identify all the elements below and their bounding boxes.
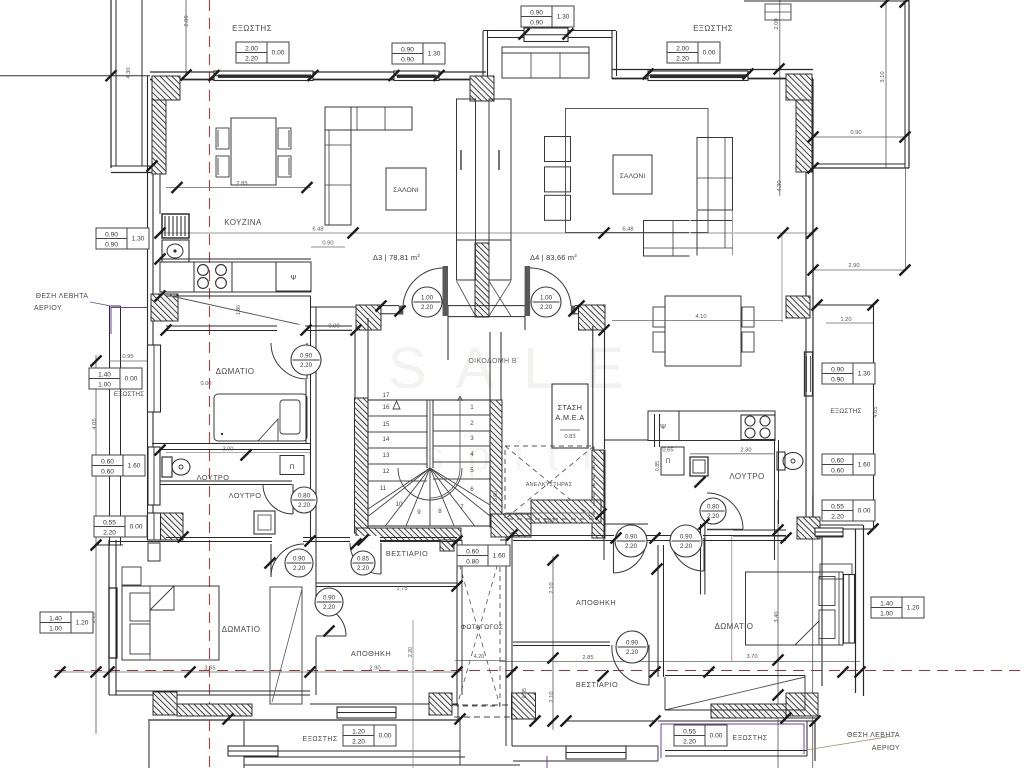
svg-text:0.90: 0.90 bbox=[401, 46, 414, 53]
svg-text:1.30: 1.30 bbox=[858, 371, 871, 378]
svg-text:1.00: 1.00 bbox=[540, 295, 553, 302]
svg-text:0.55: 0.55 bbox=[103, 519, 116, 526]
svg-text:2.20: 2.20 bbox=[676, 55, 689, 62]
svg-text:2.10: 2.10 bbox=[549, 582, 555, 593]
svg-text:2.30: 2.30 bbox=[740, 448, 751, 454]
svg-text:ΑΕΡΙΟΥ: ΑΕΡΙΟΥ bbox=[872, 745, 900, 752]
svg-text:2.90: 2.90 bbox=[848, 263, 859, 269]
svg-text:0.83: 0.83 bbox=[564, 434, 575, 440]
svg-text:2.00: 2.00 bbox=[676, 45, 689, 52]
svg-text:1.00: 1.00 bbox=[49, 625, 62, 632]
svg-text:1.40: 1.40 bbox=[49, 615, 62, 622]
svg-text:2.20: 2.20 bbox=[408, 647, 414, 657]
svg-text:0.90: 0.90 bbox=[323, 595, 336, 602]
svg-text:2.20: 2.20 bbox=[103, 529, 116, 536]
svg-text:ΣΑΛΟΝΙ: ΣΑΛΟΝΙ bbox=[620, 173, 646, 180]
svg-text:1.00: 1.00 bbox=[421, 295, 434, 302]
svg-text:4.05: 4.05 bbox=[92, 418, 98, 429]
svg-text:Α.Μ.Ε.Α: Α.Μ.Ε.Α bbox=[555, 413, 584, 422]
svg-text:Π: Π bbox=[290, 464, 295, 471]
svg-text:4.20: 4.20 bbox=[474, 654, 485, 660]
svg-text:3.00: 3.00 bbox=[223, 447, 234, 453]
svg-text:ΦΩΤΑΓΩΓΟΣ: ΦΩΤΑΓΩΓΟΣ bbox=[461, 624, 504, 631]
svg-text:0.90: 0.90 bbox=[300, 353, 313, 360]
svg-text:ΑΠΟΘΗΚΗ: ΑΠΟΘΗΚΗ bbox=[351, 649, 391, 658]
svg-text:2.85: 2.85 bbox=[582, 655, 593, 661]
svg-text:2.00: 2.00 bbox=[184, 15, 190, 26]
svg-text:0.90: 0.90 bbox=[530, 9, 543, 16]
svg-text:10: 10 bbox=[396, 501, 403, 508]
svg-text:2.20: 2.20 bbox=[352, 738, 365, 745]
svg-text:2.90: 2.90 bbox=[369, 666, 380, 672]
svg-text:S A L E: S A L E bbox=[388, 336, 632, 401]
svg-text:ΕΞΩΣΤΗΣ: ΕΞΩΣΤΗΣ bbox=[232, 24, 272, 33]
svg-text:2.20: 2.20 bbox=[421, 304, 434, 311]
svg-text:4.10: 4.10 bbox=[695, 314, 706, 320]
svg-text:Δ4 | 83,66 m2: Δ4 | 83,66 m2 bbox=[530, 253, 577, 262]
svg-text:2.00: 2.00 bbox=[245, 45, 258, 52]
svg-text:3.10: 3.10 bbox=[880, 71, 886, 82]
svg-text:0.60: 0.60 bbox=[493, 491, 499, 501]
svg-text:4.30: 4.30 bbox=[126, 67, 132, 78]
svg-text:ΕΞΩΣΤΗΣ: ΕΞΩΣΤΗΣ bbox=[732, 735, 768, 742]
svg-text:6.48: 6.48 bbox=[622, 227, 633, 233]
svg-text:ΕΞΩΣΤΗΣ: ΕΞΩΣΤΗΣ bbox=[114, 391, 144, 398]
svg-text:0.90: 0.90 bbox=[105, 231, 118, 238]
svg-text:0.85: 0.85 bbox=[655, 461, 661, 471]
svg-text:Π: Π bbox=[666, 459, 670, 465]
svg-text:ΔΩΜΑΤΙΟ: ΔΩΜΑΤΙΟ bbox=[216, 367, 255, 376]
svg-text:0.00: 0.00 bbox=[379, 733, 392, 740]
svg-text:0.60: 0.60 bbox=[831, 457, 844, 464]
svg-text:ΣΑΛΟΝΙ: ΣΑΛΟΝΙ bbox=[393, 187, 419, 194]
svg-text:0.60: 0.60 bbox=[831, 467, 844, 474]
svg-text:ΕΞΩΣΤΗΣ: ΕΞΩΣΤΗΣ bbox=[830, 408, 861, 415]
svg-text:2.20: 2.20 bbox=[625, 543, 638, 550]
svg-text:6.48: 6.48 bbox=[312, 227, 323, 233]
svg-text:1.60: 1.60 bbox=[858, 462, 871, 469]
svg-text:ΔΩΜΑΤΙΟ: ΔΩΜΑΤΙΟ bbox=[715, 622, 754, 631]
svg-text:ΘΕΣΗ ΛΕΒΗΤΑ: ΘΕΣΗ ΛΕΒΗΤΑ bbox=[847, 732, 900, 739]
svg-text:0.55: 0.55 bbox=[831, 503, 844, 510]
svg-text:17: 17 bbox=[383, 392, 390, 399]
svg-text:0.60: 0.60 bbox=[101, 458, 114, 465]
svg-text:0.90: 0.90 bbox=[831, 376, 844, 383]
svg-text:2: 2 bbox=[470, 420, 474, 427]
svg-text:0.55: 0.55 bbox=[683, 728, 696, 735]
svg-text:0.80: 0.80 bbox=[466, 558, 479, 565]
svg-text:1.40: 1.40 bbox=[880, 600, 893, 607]
svg-text:2.20: 2.20 bbox=[245, 55, 258, 62]
svg-text:1.30: 1.30 bbox=[428, 51, 441, 58]
svg-text:0.90: 0.90 bbox=[328, 324, 339, 330]
svg-text:15: 15 bbox=[383, 421, 390, 428]
svg-text:ΒΕΣΤΙΑΡΙΟ: ΒΕΣΤΙΑΡΙΟ bbox=[386, 549, 428, 558]
svg-text:Δ3 | 78,81 m2: Δ3 | 78,81 m2 bbox=[373, 253, 420, 262]
svg-text:2.20: 2.20 bbox=[683, 738, 696, 745]
svg-text:4: 4 bbox=[470, 451, 474, 458]
svg-text:9: 9 bbox=[417, 509, 421, 516]
svg-text:ΔΩΜΑΤΙΟ: ΔΩΜΑΤΙΟ bbox=[222, 625, 261, 634]
svg-text:0.90: 0.90 bbox=[680, 534, 693, 541]
svg-text:4.30: 4.30 bbox=[777, 180, 783, 191]
svg-text:0.90: 0.90 bbox=[850, 130, 861, 136]
svg-text:0.90: 0.90 bbox=[293, 556, 306, 563]
svg-text:0.60: 0.60 bbox=[101, 468, 114, 475]
svg-text:ΛΟΥΤΡΟ: ΛΟΥΤΡΟ bbox=[229, 491, 262, 500]
svg-text:0.90: 0.90 bbox=[105, 241, 118, 248]
svg-text:ΚΟΥΖΙΝΑ: ΚΟΥΖΙΝΑ bbox=[224, 218, 262, 227]
svg-text:0.00: 0.00 bbox=[201, 381, 212, 387]
svg-text:ΛΟΥΤΡΟ: ΛΟΥΤΡΟ bbox=[197, 473, 230, 482]
svg-text:1.20: 1.20 bbox=[352, 728, 365, 735]
svg-text:ΟΙΚΟΔΟΜΗ Β΄: ΟΙΚΟΔΟΜΗ Β΄ bbox=[468, 358, 519, 365]
svg-text:1: 1 bbox=[470, 404, 474, 411]
svg-text:2.20: 2.20 bbox=[626, 649, 639, 656]
svg-text:0.00: 0.00 bbox=[125, 376, 138, 383]
svg-text:0.60: 0.60 bbox=[466, 548, 479, 555]
svg-text:11: 11 bbox=[380, 485, 387, 492]
svg-text:ΑΕΡΙΟΥ: ΑΕΡΙΟΥ bbox=[34, 305, 62, 312]
svg-text:2.20: 2.20 bbox=[298, 502, 311, 509]
svg-text:0.90: 0.90 bbox=[322, 241, 333, 247]
svg-text:2.20: 2.20 bbox=[300, 362, 313, 369]
svg-text:0.00: 0.00 bbox=[703, 50, 716, 57]
svg-text:5: 5 bbox=[470, 467, 474, 474]
svg-text:0.85: 0.85 bbox=[357, 556, 370, 563]
svg-text:1.20: 1.20 bbox=[76, 620, 89, 627]
svg-text:2.10: 2.10 bbox=[549, 691, 555, 702]
svg-text:4.65: 4.65 bbox=[873, 406, 879, 417]
svg-text:1.30: 1.30 bbox=[557, 14, 570, 21]
svg-text:0.95: 0.95 bbox=[122, 354, 133, 360]
svg-text:16: 16 bbox=[383, 404, 390, 411]
svg-text:ΘΕΣΗ ΛΕΒΗΤΑ: ΘΕΣΗ ΛΕΒΗΤΑ bbox=[36, 293, 89, 300]
svg-text:2.20: 2.20 bbox=[357, 565, 370, 572]
svg-text:1.20: 1.20 bbox=[907, 605, 920, 612]
svg-text:2.20: 2.20 bbox=[831, 513, 844, 520]
svg-text:3.70: 3.70 bbox=[746, 654, 757, 660]
svg-text:2.20: 2.20 bbox=[293, 565, 306, 572]
svg-text:8: 8 bbox=[438, 508, 442, 515]
svg-text:0.80: 0.80 bbox=[298, 493, 311, 500]
svg-text:0.90: 0.90 bbox=[401, 56, 414, 63]
svg-text:2.20: 2.20 bbox=[323, 604, 336, 611]
svg-text:0.90: 0.90 bbox=[530, 19, 543, 26]
svg-text:ΑΠΟΘΗΚΗ: ΑΠΟΘΗΚΗ bbox=[576, 598, 616, 607]
svg-text:0.65: 0.65 bbox=[662, 448, 673, 454]
svg-text:ΒΕΣΤΙΑΡΙΟ: ΒΕΣΤΙΑΡΙΟ bbox=[576, 680, 618, 689]
svg-text:13: 13 bbox=[383, 452, 390, 459]
svg-text:0.90: 0.90 bbox=[831, 366, 844, 373]
svg-text:ΑΝΕΛΚΥΣΤΗΡΑΣ: ΑΝΕΛΚΥΣΤΗΡΑΣ bbox=[526, 482, 573, 488]
svg-text:ΛΟΥΤΡΟ: ΛΟΥΤΡΟ bbox=[729, 472, 764, 481]
svg-text:0.00: 0.00 bbox=[858, 508, 871, 515]
svg-text:0.90: 0.90 bbox=[626, 640, 639, 647]
svg-text:1.60: 1.60 bbox=[128, 463, 141, 470]
svg-text:1.75: 1.75 bbox=[396, 586, 407, 592]
svg-text:12: 12 bbox=[383, 468, 390, 475]
svg-text:Ψ: Ψ bbox=[291, 275, 297, 282]
svg-text:6.95: 6.95 bbox=[522, 688, 528, 698]
svg-text:3.40: 3.40 bbox=[774, 611, 780, 622]
svg-text:1.80: 1.80 bbox=[543, 518, 554, 524]
svg-text:0.00: 0.00 bbox=[130, 524, 143, 531]
svg-text:3: 3 bbox=[470, 435, 474, 442]
svg-text:1.00: 1.00 bbox=[880, 610, 893, 617]
svg-text:1.30: 1.30 bbox=[132, 236, 145, 243]
svg-text:7: 7 bbox=[460, 504, 464, 511]
svg-text:6: 6 bbox=[470, 486, 474, 493]
svg-text:2.20: 2.20 bbox=[680, 543, 693, 550]
svg-text:ΣΤΑΣΗ: ΣΤΑΣΗ bbox=[558, 403, 583, 412]
svg-text:2.85: 2.85 bbox=[236, 181, 247, 187]
svg-text:Ψ: Ψ bbox=[660, 424, 666, 431]
svg-text:1.60: 1.60 bbox=[493, 553, 506, 560]
svg-text:1.20: 1.20 bbox=[840, 317, 851, 323]
svg-text:ΕΞΩΣΤΗΣ: ΕΞΩΣΤΗΣ bbox=[302, 736, 338, 743]
svg-text:2.20: 2.20 bbox=[540, 304, 553, 311]
svg-text:0.00: 0.00 bbox=[710, 733, 723, 740]
svg-text:1.00: 1.00 bbox=[98, 381, 111, 388]
svg-text:1.80: 1.80 bbox=[236, 305, 242, 315]
svg-text:0.00: 0.00 bbox=[272, 50, 285, 57]
svg-text:ΕΞΩΣΤΗΣ: ΕΞΩΣΤΗΣ bbox=[693, 24, 733, 33]
svg-text:3.65: 3.65 bbox=[204, 666, 215, 672]
svg-text:1.40: 1.40 bbox=[98, 371, 111, 378]
svg-text:0.80: 0.80 bbox=[707, 504, 720, 511]
svg-text:14: 14 bbox=[383, 436, 390, 443]
svg-text:0.90: 0.90 bbox=[625, 534, 638, 541]
